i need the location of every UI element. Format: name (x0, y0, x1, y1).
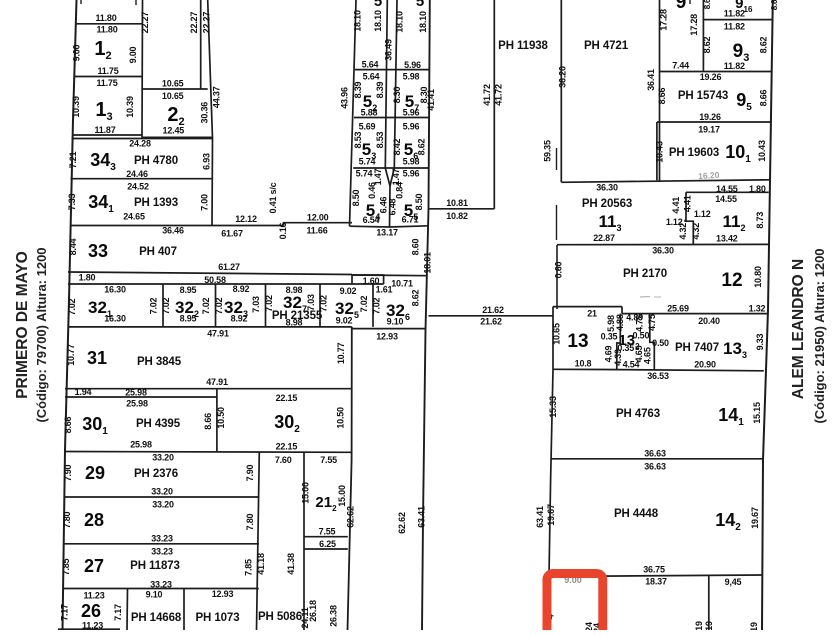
svg-text:7.17: 7.17 (60, 604, 70, 621)
wall 32-1/32-2 (162, 284, 164, 327)
svg-text:6.71: 6.71 (402, 215, 419, 225)
svg-text:31: 31 (87, 348, 107, 368)
svg-text:8.44: 8.44 (68, 238, 78, 255)
svg-text:10.71: 10.71 (391, 279, 413, 289)
wall 32-7/32-5 (319, 284, 321, 327)
svg-text:33.23: 33.23 (150, 580, 172, 590)
svg-text:10.65: 10.65 (162, 91, 184, 101)
svg-text:4.39: 4.39 (613, 349, 623, 366)
svg-text:PH 5086: PH 5086 (258, 611, 302, 623)
svg-text:PH 407: PH 407 (139, 246, 177, 258)
svg-text:7.02: 7.02 (372, 297, 382, 314)
svg-text:PH 4780: PH 4780 (134, 155, 178, 167)
svg-text:33.20: 33.20 (152, 500, 174, 510)
svg-text:PH 4763: PH 4763 (616, 408, 660, 420)
svg-text:5: 5 (374, 0, 382, 10)
wall between PH 11938 and PH 4721 (560, 0, 562, 182)
svg-text:10.43: 10.43 (655, 141, 665, 163)
svg-text:21.62: 21.62 (480, 317, 502, 327)
svg-text:7.55: 7.55 (319, 527, 336, 537)
svg-text:5.96: 5.96 (403, 122, 420, 132)
svg-text:PH 2170: PH 2170 (623, 268, 667, 280)
svg-text:8.30: 8.30 (419, 86, 429, 103)
svg-text:11.80: 11.80 (95, 13, 116, 23)
svg-text:8.66: 8.66 (759, 89, 769, 106)
svg-text:24.65: 24.65 (123, 212, 145, 222)
south wall PH 2170 west part (21) (553, 306, 622, 308)
svg-text:9.02: 9.02 (336, 316, 353, 326)
svg-text:11.87: 11.87 (94, 125, 115, 135)
svg-text:9.00: 9.00 (128, 46, 138, 63)
svg-text:22.87: 22.87 (593, 233, 615, 243)
svg-text:18.01: 18.01 (423, 252, 433, 274)
svg-text:63.41: 63.41 (535, 506, 545, 528)
svg-text:33.23: 33.23 (151, 534, 173, 544)
svg-text:7.02: 7.02 (161, 297, 171, 314)
svg-text:13.42: 13.42 (716, 234, 738, 244)
svg-text:7.85: 7.85 (61, 558, 71, 575)
svg-text:9.10: 9.10 (146, 590, 163, 600)
svg-text:36.53: 36.53 (647, 371, 669, 381)
svg-text:19.26: 19.26 (699, 112, 721, 122)
svg-text:12: 12 (721, 270, 742, 291)
svg-text:7.02: 7.02 (319, 295, 329, 312)
svg-text:0.60: 0.60 (554, 261, 564, 278)
svg-text:61.67: 61.67 (221, 229, 243, 239)
svg-text:25.98: 25.98 (130, 440, 152, 450)
east wall of highlighted parcel (under red) (601, 576, 603, 630)
svg-text:4.88: 4.88 (615, 314, 625, 331)
svg-text:7.00: 7.00 (200, 194, 210, 211)
east wall of parcels 34-3/34-1 (211, 139, 214, 226)
north wall parcels 5-2/5-7 (5.64/5.96) (355, 69, 430, 71)
svg-text:24.28: 24.28 (129, 139, 151, 149)
svg-text:8.6: 8.6 (770, 0, 779, 10)
svg-text:7.02: 7.02 (149, 297, 159, 314)
svg-text:8.98: 8.98 (286, 285, 303, 295)
svg-text:8.42: 8.42 (392, 138, 402, 155)
svg-text:33.23: 33.23 (151, 547, 173, 557)
wall between 30-1 and 30-2 (216, 389, 218, 453)
wall 32-3/32-7 (265, 284, 267, 327)
svg-text:25.98: 25.98 (125, 388, 147, 398)
svg-text:8.66: 8.66 (203, 413, 213, 430)
svg-text:24.52: 24.52 (127, 182, 149, 192)
south wall 9-5 / north wall 10-1 (657, 121, 772, 123)
svg-text:9.33: 9.33 (755, 333, 765, 350)
svg-text:26: 26 (81, 601, 101, 621)
svg-text:PH 3845: PH 3845 (137, 356, 182, 368)
svg-text:12.93: 12.93 (376, 332, 398, 342)
svg-text:10.80: 10.80 (753, 266, 763, 288)
svg-text:15.00: 15.00 (337, 485, 347, 507)
svg-text:16.30: 16.30 (104, 285, 126, 295)
svg-text:8.95: 8.95 (180, 314, 197, 324)
wall 21.62/21.62 (429, 315, 554, 317)
svg-text:0.84: 0.84 (395, 182, 405, 199)
svg-text:7.17: 7.17 (113, 604, 123, 621)
svg-text:7.80: 7.80 (245, 513, 255, 530)
svg-text:19.67: 19.67 (546, 504, 556, 526)
svg-text:22.27: 22.27 (140, 12, 150, 34)
north wall parcel 2-2 (10.65) (142, 88, 208, 90)
svg-text:10.81: 10.81 (446, 198, 468, 208)
svg-text:10.65: 10.65 (162, 79, 184, 89)
svg-text:1.61: 1.61 (376, 285, 393, 295)
svg-text:8.53: 8.53 (375, 131, 385, 148)
svg-text:PH 11938: PH 11938 (498, 40, 548, 52)
svg-text:47.91: 47.91 (207, 329, 229, 339)
svg-text:5.96: 5.96 (404, 60, 421, 70)
svg-text:7.85: 7.85 (244, 559, 254, 576)
north wall parcel 32-6 (10.71) (352, 274, 427, 277)
svg-text:8.6: 8.6 (703, 0, 712, 9)
west wall of 22.27 wedge strip (200, 0, 202, 89)
svg-text:PH 4721: PH 4721 (584, 40, 629, 52)
south wall parcel 32 row / north wall 31 (68, 326, 352, 328)
svg-text:8.50: 8.50 (351, 189, 361, 206)
svg-text:1.80: 1.80 (749, 184, 766, 194)
south wall parcel 29 (64, 496, 259, 498)
wall between 1-2 and 1-3 (75, 76, 143, 78)
svg-text:8.92: 8.92 (233, 284, 250, 294)
red highlight rectangle of selected parcel (547, 574, 603, 635)
svg-text:29: 29 (85, 463, 105, 483)
wall between 26 and PH 14668 (126, 589, 129, 631)
svg-text:17.28: 17.28 (689, 14, 699, 36)
svg-text:PH 2376: PH 2376 (134, 468, 178, 480)
wall 32-5/32-6 (372, 284, 374, 327)
svg-text:61.27: 61.27 (218, 262, 240, 272)
svg-text:8.92: 8.92 (231, 314, 248, 324)
svg-text:33.20: 33.20 (152, 453, 174, 463)
svg-text:8.62: 8.62 (417, 138, 427, 155)
svg-text:41.72: 41.72 (482, 84, 492, 106)
svg-text:10.43: 10.43 (757, 140, 767, 162)
svg-text:19.17: 19.17 (698, 125, 720, 135)
svg-text:36.63: 36.63 (644, 449, 666, 459)
wall between PH 14668 and PH 1073 (183, 589, 185, 631)
svg-text:PH 4395: PH 4395 (136, 418, 181, 430)
svg-text:PH 14668: PH 14668 (131, 612, 182, 624)
svg-text:36.30: 36.30 (652, 246, 674, 256)
west wall of parcel 5 strip (43.96) (350, 0, 357, 226)
svg-text:18.10: 18.10 (418, 11, 428, 33)
svg-text:30.36: 30.36 (199, 102, 209, 124)
svg-text:14.55: 14.55 (715, 194, 737, 204)
svg-text:0.46: 0.46 (367, 182, 377, 199)
svg-text:4.32: 4.32 (691, 223, 701, 240)
svg-text:59.35: 59.35 (543, 140, 553, 162)
svg-text:PH 19603: PH 19603 (669, 147, 719, 159)
svg-text:15.00: 15.00 (301, 482, 311, 504)
svg-text:1.32: 1.32 (749, 304, 766, 314)
svg-text:PRIMERO DE MAYO: PRIMERO DE MAYO (14, 251, 31, 399)
block right boundary (Alem Leandro frontage) (762, 0, 773, 630)
svg-text:PH 1393: PH 1393 (134, 197, 178, 209)
svg-text:5.74: 5.74 (356, 169, 373, 179)
svg-text:8.62: 8.62 (759, 36, 769, 53)
svg-text:12.00: 12.00 (307, 213, 329, 223)
south wall PH 4448 (36.75) (549, 575, 762, 577)
svg-text:22.15: 22.15 (276, 442, 298, 452)
svg-text:9,45: 9,45 (725, 577, 742, 587)
svg-text:17.28: 17.28 (659, 9, 669, 31)
svg-text:11.82: 11.82 (724, 22, 745, 32)
west wall of 36.49 lane with wedge (385, 0, 390, 186)
svg-text:7.03: 7.03 (251, 296, 261, 313)
svg-text:5.64: 5.64 (362, 60, 379, 70)
svg-text:15.15: 15.15 (752, 402, 762, 424)
wall 10.81/10.82 (429, 208, 495, 210)
svg-text:26.18: 26.18 (308, 600, 318, 622)
wall between 5-4 and 5-5 (389, 186, 392, 227)
svg-text:7.02: 7.02 (201, 297, 211, 314)
svg-text:8.30: 8.30 (392, 86, 402, 103)
south wall parcel 2-2 (12.45) (142, 136, 213, 138)
svg-text:18.37: 18.37 (645, 577, 667, 587)
svg-text:62.62: 62.62 (346, 506, 356, 528)
long west corridor wall (26.18/26.38 strip) (348, 327, 352, 630)
svg-text:7.44: 7.44 (672, 61, 689, 71)
svg-text:27: 27 (84, 556, 104, 576)
svg-text:21.62: 21.62 (482, 305, 504, 315)
south wall PH 4763 (36.63) (551, 458, 764, 460)
svg-text:13: 13 (567, 331, 588, 352)
svg-text:4.75: 4.75 (635, 315, 645, 332)
svg-text:8.95: 8.95 (180, 285, 197, 295)
south wall parcel 27 (63, 588, 259, 590)
svg-text:7.80: 7.80 (62, 511, 72, 528)
svg-text:8.66: 8.66 (63, 416, 73, 433)
south wall parcel 9-16 (703, 19, 773, 21)
north wall parcel 11-2 (14.55) (686, 191, 769, 193)
svg-text:11.80: 11.80 (96, 25, 117, 35)
south wall parcel 21-2 (7.55) (304, 536, 348, 538)
svg-text:19.67: 19.67 (750, 507, 760, 529)
south wall 9-3 / north wall 9-5 (7.44/19.26) (660, 71, 773, 73)
svg-text:8.60: 8.60 (411, 238, 421, 255)
svg-text:4.65: 4.65 (643, 347, 653, 364)
svg-text:9: 9 (676, 0, 687, 13)
wall 5-2/5-3 and 5-7/5-6 (354, 117, 429, 119)
south wall 6.25 sliver (304, 548, 348, 550)
svg-text:8.50: 8.50 (414, 193, 424, 210)
svg-text:36.20: 36.20 (558, 66, 568, 88)
svg-text:9.00: 9.00 (72, 44, 82, 61)
svg-text:5.98: 5.98 (403, 157, 420, 167)
svg-text:50.58: 50.58 (204, 275, 226, 285)
svg-text:9.10: 9.10 (387, 317, 404, 327)
svg-text:47.91: 47.91 (206, 377, 228, 387)
west wall PH 4763 / PH 4448 (15.33/19.67) (549, 370, 554, 630)
svg-text:7.90: 7.90 (245, 464, 255, 481)
svg-text:8.39: 8.39 (375, 81, 385, 98)
south wall parcels 30-1/30-2 (65, 451, 352, 454)
wall in bottom row (18.37/9.45) (708, 576, 710, 631)
south wall 11-3/11-2 (22.87 / 13.42) (557, 243, 768, 245)
svg-text:7.02: 7.02 (359, 295, 369, 312)
east wall of 22.27 wedge strip (44.37) (208, 0, 213, 139)
svg-text:6.54: 6.54 (363, 215, 380, 225)
north wall parcel 1-2 (76, 23, 142, 25)
block left boundary (Primero de Mayo frontage) (63, 0, 77, 630)
faded dash marks under PH 2170 (640, 296, 650, 299)
svg-text:5.96: 5.96 (403, 169, 420, 179)
svg-text:PH 20563: PH 20563 (582, 198, 632, 210)
svg-text:41.38: 41.38 (286, 553, 296, 575)
svg-text:63.41: 63.41 (417, 506, 427, 528)
svg-text:1.80: 1.80 (79, 273, 96, 283)
svg-text:36.46: 36.46 (162, 226, 184, 236)
svg-text:10.82: 10.82 (446, 211, 468, 221)
jagged pocket parcel 13-2 west side (617, 314, 621, 370)
svg-text:5.98: 5.98 (403, 72, 420, 82)
svg-text:PH 11873: PH 11873 (130, 560, 180, 572)
svg-text:6.93: 6.93 (202, 153, 212, 170)
1.60 step at parcel 32-6 (352, 275, 383, 284)
svg-text:7.55: 7.55 (320, 455, 337, 465)
svg-text:PH 4448: PH 4448 (614, 508, 659, 520)
svg-text:11.82: 11.82 (724, 9, 745, 19)
svg-text:22.15: 22.15 (276, 393, 298, 403)
broken wall west of PH 20563 (0.60) (556, 148, 558, 170)
svg-text:11.75: 11.75 (96, 78, 117, 88)
svg-text:10.50: 10.50 (216, 407, 226, 429)
svg-text:8.98: 8.98 (286, 318, 303, 328)
svg-text:(Código: 79700) Altura: 1200: (Código: 79700) Altura: 1200 (34, 247, 49, 422)
svg-text:41.72: 41.72 (494, 84, 504, 106)
svg-text:12.45: 12.45 (163, 126, 185, 136)
sliver west wall (351, 275, 353, 285)
step at parcel 12 south wall (621, 307, 623, 314)
svg-text:PH 15743: PH 15743 (678, 90, 728, 102)
west wall parcel 10-1 (656, 122, 658, 180)
svg-text:6.25: 6.25 (319, 539, 336, 549)
north wall parcel 34-3 (72, 138, 213, 140)
svg-text:11.23: 11.23 (82, 621, 103, 631)
svg-text:20.40: 20.40 (698, 316, 720, 326)
svg-text:22.27: 22.27 (189, 12, 199, 34)
east wall of parcel 1 block (141, 0, 144, 138)
partial south wall of 26 at image edge (58, 628, 120, 630)
zigzag wall between 11-3 and 11-2 (4.41/4.32) (684, 192, 693, 244)
svg-text:8.66: 8.66 (657, 87, 667, 104)
svg-text:10.50: 10.50 (336, 407, 346, 429)
svg-text:7.60: 7.60 (275, 455, 292, 465)
svg-text:36.41: 36.41 (646, 69, 656, 91)
svg-text:36.49: 36.49 (384, 39, 394, 61)
svg-text:62.62: 62.62 (397, 512, 407, 534)
svg-text:5.74: 5.74 (359, 157, 376, 167)
svg-text:0.16: 0.16 (278, 222, 288, 239)
svg-text:0.50: 0.50 (652, 338, 669, 348)
svg-text:7.33: 7.33 (67, 193, 77, 210)
svg-text:36.30: 36.30 (596, 183, 618, 193)
east wall of parcels 29/28/27/26 row (257, 452, 260, 631)
svg-text:9.02: 9.02 (340, 286, 357, 296)
svg-text:7.21: 7.21 (68, 151, 78, 168)
svg-text:11.75: 11.75 (97, 66, 118, 76)
svg-text:4.75: 4.75 (647, 314, 657, 331)
svg-text:13.17: 13.17 (376, 228, 398, 238)
south wall parcel 28 (64, 543, 259, 545)
svg-text:26.38: 26.38 (329, 605, 339, 627)
svg-text:7.03: 7.03 (306, 294, 316, 311)
jog 0.16 and 12.00/11.66 wall (284, 223, 353, 226)
svg-text:10.39: 10.39 (71, 96, 81, 118)
wall 5-3/5-4 and 5-6/5-5 (353, 167, 429, 169)
svg-text:6.48: 6.48 (388, 198, 398, 215)
svg-text:10.65: 10.65 (552, 323, 562, 345)
east wall PH 4721 (659, 0, 661, 182)
svg-text:4.41: 4.41 (682, 195, 692, 212)
svg-text:36.75: 36.75 (643, 565, 665, 575)
west wall parcels 9-16/9-3 (702, 0, 704, 72)
west wall of 21-2 strip (303, 452, 305, 630)
svg-text:10.77: 10.77 (66, 344, 76, 366)
svg-text:12.93: 12.93 (212, 589, 234, 599)
svg-text:12.12: 12.12 (235, 214, 257, 224)
svg-text:21: 21 (587, 309, 597, 319)
south wall parcel 33 (68, 272, 352, 275)
svg-text:19: 19 (704, 621, 714, 630)
svg-text:1.94: 1.94 (75, 387, 92, 397)
svg-text:43.96: 43.96 (340, 87, 350, 109)
south wall parcel 1-3 (72, 134, 142, 136)
north wall of parcel 32 row (68, 283, 384, 285)
svg-text:36.63: 36.63 (644, 462, 666, 472)
svg-text:5.88: 5.88 (361, 108, 378, 118)
south wall 13 block (36.53) (553, 369, 764, 371)
wall between 34-3 and 34-1 (71, 178, 213, 180)
svg-text:5.64: 5.64 (363, 72, 380, 82)
svg-text:11.82: 11.82 (724, 61, 745, 71)
svg-text:10.8: 10.8 (575, 359, 592, 369)
svg-text:8.62: 8.62 (702, 36, 712, 53)
svg-text:19.26: 19.26 (700, 72, 722, 82)
svg-text:16.20: 16.20 (698, 170, 720, 181)
south wall of 5 strip (13.17) (350, 226, 429, 227)
svg-text:5: 5 (416, 0, 424, 10)
long spine wall east of 5 strip and 32 row (18.01 / 62.62 / 63.41) (422, 0, 430, 630)
svg-text:19: 19 (694, 621, 704, 630)
inner north wall parcel 30-1 (65, 396, 217, 398)
svg-text:8.73: 8.73 (755, 212, 765, 229)
svg-text:14.55: 14.55 (716, 184, 738, 194)
south wall parcel 12 east part (25.69/1.32) (622, 313, 768, 315)
svg-text:7.02: 7.02 (67, 298, 77, 315)
svg-text:4.41: 4.41 (671, 197, 681, 214)
svg-text:15.33: 15.33 (548, 396, 558, 418)
svg-text:10.39: 10.39 (125, 96, 135, 118)
svg-text:22.27: 22.27 (202, 12, 212, 34)
svg-text:7.02: 7.02 (214, 297, 224, 314)
svg-text:28: 28 (84, 510, 104, 530)
svg-text:20.90: 20.90 (694, 360, 716, 370)
svg-text:PH 1073: PH 1073 (195, 612, 239, 624)
svg-text:41.18: 41.18 (256, 553, 266, 575)
svg-text:4.69: 4.69 (603, 345, 613, 362)
svg-text:7.90: 7.90 (63, 464, 73, 481)
svg-text:25.69: 25.69 (667, 304, 689, 314)
svg-text:4.32: 4.32 (678, 223, 688, 240)
svg-text:44.37: 44.37 (211, 86, 221, 108)
svg-text:33: 33 (88, 241, 108, 261)
svg-text:11.66: 11.66 (306, 226, 327, 236)
south wall parcel 34-1 / north wall 33 (70, 225, 284, 227)
south wall parcel 31 (65, 388, 352, 390)
